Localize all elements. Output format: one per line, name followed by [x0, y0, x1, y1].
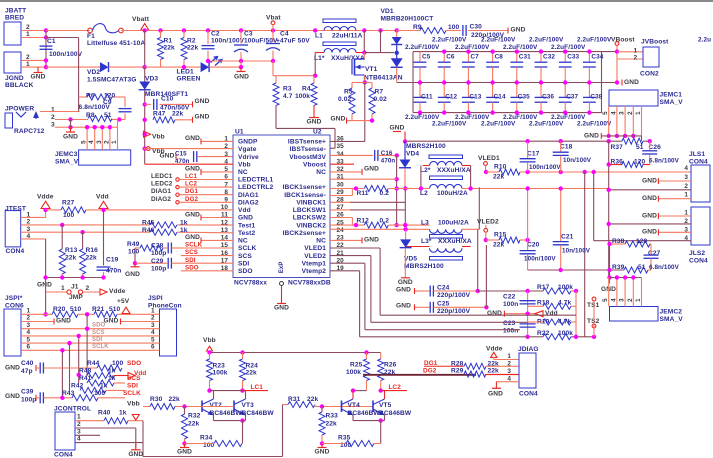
svg-text:1k: 1k	[108, 375, 116, 382]
svg-text:0.02: 0.02	[338, 96, 351, 103]
svg-text:1: 1	[51, 106, 55, 113]
svg-text:LEDC2: LEDC2	[151, 181, 173, 188]
svg-text:2.2uF/100V: 2.2uF/100V	[577, 37, 612, 44]
svg-text:VT5: VT5	[379, 402, 392, 409]
svg-text:RAPC712: RAPC712	[14, 128, 45, 135]
svg-text:DG2: DG2	[423, 368, 437, 375]
svg-text:2: 2	[51, 114, 55, 121]
svg-text:GREEN: GREEN	[177, 76, 201, 83]
svg-text:R26: R26	[384, 362, 397, 369]
svg-text:JLS2: JLS2	[689, 250, 705, 257]
svg-text:3: 3	[619, 298, 626, 302]
svg-text:Test1: Test1	[238, 222, 255, 229]
svg-text:SCLK: SCLK	[185, 242, 203, 249]
svg-text:GND: GND	[488, 391, 503, 398]
svg-text:C13: C13	[469, 94, 481, 101]
svg-text:GND: GND	[185, 135, 200, 142]
svg-text:VboostM3V: VboostM3V	[289, 154, 326, 161]
svg-text:SCS: SCS	[185, 249, 198, 256]
svg-text:GND: GND	[307, 119, 322, 126]
svg-text:SDI: SDI	[127, 382, 138, 389]
svg-text:Vdde: Vdde	[109, 288, 126, 295]
svg-text:100: 100	[128, 249, 140, 256]
svg-text:SMA_V: SMA_V	[660, 99, 684, 106]
svg-text:C3: C3	[244, 30, 253, 37]
svg-text:R13: R13	[65, 247, 78, 254]
svg-text:JMP: JMP	[69, 294, 83, 301]
svg-text:C4: C4	[280, 30, 289, 37]
svg-text:SDI: SDI	[238, 260, 249, 267]
svg-text:34: 34	[337, 151, 345, 158]
svg-text:CON4: CON4	[54, 451, 73, 458]
svg-text:C40: C40	[21, 360, 34, 367]
svg-text:100k: 100k	[213, 370, 228, 377]
svg-text:1.5SMC47AT3G: 1.5SMC47AT3G	[87, 76, 136, 83]
svg-text:GND: GND	[5, 393, 20, 400]
svg-text:22k: 22k	[488, 368, 500, 375]
svg-text:470n: 470n	[381, 157, 396, 164]
svg-text:22k: 22k	[187, 45, 199, 52]
svg-text:100: 100	[112, 360, 124, 367]
svg-text:NC: NC	[238, 169, 248, 176]
svg-text:C8: C8	[495, 53, 504, 60]
svg-text:Vgate: Vgate	[238, 146, 257, 153]
svg-text:JEMC2: JEMC2	[660, 309, 683, 316]
svg-text:GND: GND	[396, 286, 411, 293]
svg-text:10n/100V: 10n/100V	[563, 157, 592, 164]
svg-text:BBLACK: BBLACK	[5, 82, 34, 89]
svg-text:IBCK1sense+: IBCK1sense+	[283, 184, 326, 191]
svg-text:Vbb: Vbb	[238, 161, 251, 168]
svg-text:3: 3	[224, 151, 228, 158]
svg-text:SCS: SCS	[92, 330, 105, 336]
svg-text:100uH/2A: 100uH/2A	[438, 219, 469, 226]
svg-text:C37: C37	[566, 94, 578, 101]
svg-text:VBoost: VBoost	[611, 36, 635, 43]
svg-text:100n/100V: 100n/100V	[529, 164, 561, 171]
svg-text:R20: R20	[53, 306, 66, 313]
svg-text:VT2: VT2	[210, 402, 223, 409]
svg-text:2.2u: 2.2u	[698, 37, 711, 44]
svg-text:2: 2	[86, 285, 90, 292]
svg-text:JPOWER: JPOWER	[5, 105, 34, 112]
svg-text:NCV788xx: NCV788xx	[234, 279, 267, 286]
svg-text:GNDP: GNDP	[238, 139, 258, 146]
svg-text:JVBoost: JVBoost	[641, 39, 669, 46]
svg-text:JLS1: JLS1	[689, 151, 705, 158]
svg-text:Vdd: Vdd	[545, 310, 558, 317]
svg-text:SDO: SDO	[92, 323, 106, 329]
svg-text:C25: C25	[437, 301, 450, 308]
svg-text:GND: GND	[177, 449, 192, 456]
svg-text:IBSTsense+: IBSTsense+	[288, 139, 326, 146]
svg-text:220p/100V: 220p/100V	[437, 308, 471, 315]
svg-text:Vbatt: Vbatt	[132, 16, 150, 23]
svg-text:DIAG2: DIAG2	[238, 200, 259, 207]
svg-text:1: 1	[77, 414, 81, 421]
svg-text:1k: 1k	[108, 367, 116, 374]
svg-text:100: 100	[94, 390, 106, 397]
svg-text:SCLK: SCLK	[92, 344, 109, 350]
svg-text:2.2uF/100V: 2.2uF/100V	[455, 44, 490, 51]
svg-text:R3: R3	[283, 86, 292, 93]
svg-text:2.2uF/100V: 2.2uF/100V	[432, 37, 467, 44]
svg-text:TS1: TS1	[587, 302, 600, 309]
svg-text:GND: GND	[104, 318, 119, 325]
svg-text:C7: C7	[470, 53, 479, 60]
svg-text:100p: 100p	[21, 397, 36, 404]
svg-text:120: 120	[636, 238, 648, 245]
svg-text:SCS: SCS	[238, 253, 252, 260]
svg-text:VT4: VT4	[348, 402, 361, 409]
svg-text:100k: 100k	[295, 93, 310, 100]
svg-text:L1: L1	[315, 32, 323, 39]
svg-text:4: 4	[610, 298, 617, 302]
svg-text:SDO: SDO	[238, 268, 253, 275]
svg-text:22k: 22k	[169, 396, 181, 403]
svg-text:Vtemp2: Vtemp2	[302, 268, 327, 275]
svg-text:L3: L3	[421, 219, 429, 226]
svg-text:R2: R2	[187, 37, 196, 44]
svg-text:C26: C26	[649, 144, 662, 151]
svg-text:GND: GND	[487, 310, 502, 317]
svg-text:VLED1: VLED1	[478, 155, 500, 162]
svg-text:1: 1	[635, 298, 642, 302]
svg-text:5: 5	[27, 336, 31, 343]
svg-text:100uH/2A: 100uH/2A	[437, 190, 468, 197]
svg-text:R9: R9	[413, 24, 422, 31]
svg-text:IBCK2sense+: IBCK2sense+	[283, 230, 326, 237]
svg-text:GND: GND	[125, 271, 140, 278]
svg-text:MBRS2H100: MBRS2H100	[404, 263, 444, 270]
svg-text:2: 2	[151, 315, 155, 322]
svg-text:22k: 22k	[246, 370, 258, 377]
svg-text:1k: 1k	[180, 219, 188, 226]
svg-text:GND: GND	[195, 98, 210, 105]
svg-text:C33: C33	[567, 53, 579, 60]
svg-text:51: 51	[104, 112, 112, 119]
svg-text:6.8n/100V: 6.8n/100V	[649, 264, 680, 271]
svg-text:Vbb: Vbb	[203, 337, 216, 344]
svg-text:DG1: DG1	[185, 188, 198, 195]
svg-text:100: 100	[63, 212, 75, 219]
svg-text:2.2uF/100V: 2.2uF/100V	[551, 44, 586, 51]
svg-text:JDIAG: JDIAG	[518, 346, 539, 353]
svg-text:C24: C24	[437, 285, 450, 292]
svg-text:2.2uF/100V: 2.2uF/100V	[529, 121, 564, 128]
svg-text:C30: C30	[470, 23, 483, 30]
svg-text:SDO: SDO	[127, 360, 141, 367]
svg-text:BC846BW: BC846BW	[242, 410, 275, 417]
svg-text:22k: 22k	[493, 174, 505, 181]
svg-text:C9: C9	[103, 99, 112, 106]
svg-text:NC: NC	[316, 238, 326, 245]
svg-text:LEDC1: LEDC1	[151, 173, 173, 180]
svg-text:100p: 100p	[151, 250, 166, 257]
svg-text:3: 3	[27, 322, 31, 329]
svg-text:R30: R30	[150, 396, 163, 403]
svg-text:0.2: 0.2	[380, 217, 390, 224]
svg-text:IBCK1sense-: IBCK1sense-	[284, 192, 326, 199]
svg-text:R40: R40	[98, 410, 111, 417]
svg-text:J1: J1	[71, 284, 79, 291]
svg-text:4: 4	[610, 111, 617, 115]
svg-text:2: 2	[103, 140, 110, 144]
svg-text:GND: GND	[63, 134, 78, 141]
svg-text:GND: GND	[584, 132, 599, 139]
svg-text:Vdde: Vdde	[486, 346, 503, 353]
svg-text:NC: NC	[238, 238, 248, 245]
svg-text:C28: C28	[151, 243, 164, 250]
svg-text:R6: R6	[86, 92, 95, 99]
svg-text:SCLK: SCLK	[238, 245, 256, 252]
svg-text:4: 4	[151, 329, 155, 336]
svg-text:22k: 22k	[326, 421, 338, 428]
svg-text:SCLK: SCLK	[123, 390, 141, 397]
svg-text:C17: C17	[527, 151, 540, 158]
svg-text:1: 1	[634, 48, 638, 55]
svg-text:22k: 22k	[188, 421, 200, 428]
svg-text:XXXuH/XA: XXXuH/XA	[438, 238, 472, 245]
svg-text:C32: C32	[543, 53, 555, 60]
svg-text:R5: R5	[344, 88, 353, 95]
svg-text:+5V: +5V	[117, 298, 130, 305]
svg-text:LC1: LC1	[251, 384, 264, 391]
svg-text:C35: C35	[518, 94, 530, 101]
svg-text:GND: GND	[234, 73, 249, 80]
svg-text:DIAG2: DIAG2	[151, 196, 171, 203]
svg-text:22k: 22k	[172, 111, 184, 118]
svg-text:100n: 100n	[503, 301, 518, 308]
svg-text:DG2: DG2	[185, 196, 198, 203]
svg-text:VLED2: VLED2	[304, 253, 326, 260]
svg-text:R25: R25	[350, 362, 363, 369]
svg-text:CON6: CON6	[5, 303, 24, 310]
svg-text:100k: 100k	[346, 369, 361, 376]
svg-text:C23: C23	[503, 320, 516, 327]
svg-text:5: 5	[602, 111, 609, 115]
svg-text:Vbb: Vbb	[152, 134, 165, 141]
svg-text:GND: GND	[642, 195, 657, 202]
svg-text:1: 1	[27, 308, 31, 315]
svg-text:5: 5	[151, 336, 155, 343]
svg-text:GND: GND	[364, 237, 379, 244]
svg-text:R29: R29	[451, 368, 464, 375]
svg-text:100n/100V: 100n/100V	[49, 51, 83, 58]
svg-text:Vtemp1: Vtemp1	[302, 260, 327, 267]
svg-text:2.2uF/100V: 2.2uF/100V	[432, 121, 467, 128]
svg-text:R32: R32	[188, 413, 201, 420]
svg-text:100: 100	[448, 24, 460, 31]
svg-text:R1: R1	[164, 37, 173, 44]
svg-text:C6: C6	[446, 53, 455, 60]
svg-text:4: 4	[77, 436, 81, 443]
svg-text:GND: GND	[642, 212, 657, 219]
svg-text:C29: C29	[151, 258, 164, 265]
svg-text:C39: C39	[21, 389, 34, 396]
svg-text:SDI: SDI	[185, 257, 196, 264]
svg-text:5: 5	[602, 298, 609, 302]
svg-text:DIAG1: DIAG1	[151, 188, 171, 195]
svg-text:510: 510	[70, 306, 82, 313]
svg-text:CON4: CON4	[519, 391, 538, 398]
svg-text:GND: GND	[315, 449, 330, 456]
svg-text:R24: R24	[246, 362, 259, 369]
svg-text:CON2: CON2	[640, 71, 659, 78]
svg-text:NC: NC	[316, 169, 326, 176]
svg-text:VINBCK2: VINBCK2	[296, 222, 326, 229]
svg-text:100p: 100p	[151, 265, 166, 272]
svg-text:BRED: BRED	[5, 15, 24, 22]
svg-text:GND: GND	[56, 318, 71, 325]
svg-text:F1: F1	[87, 33, 95, 40]
svg-text:BC846BW: BC846BW	[348, 410, 381, 417]
svg-text:VT1: VT1	[365, 66, 378, 73]
svg-text:4: 4	[684, 165, 688, 172]
svg-text:22k: 22k	[65, 255, 77, 262]
svg-text:CON4: CON4	[689, 257, 708, 264]
svg-text:GND: GND	[274, 305, 289, 312]
svg-text:2: 2	[627, 111, 634, 115]
svg-text:JTEST: JTEST	[5, 206, 26, 213]
svg-text:ExP: ExP	[279, 262, 285, 274]
svg-text:R21: R21	[92, 306, 105, 313]
svg-text:1: 1	[151, 308, 155, 315]
svg-text:L2: L2	[420, 190, 428, 197]
svg-text:1: 1	[111, 140, 118, 144]
svg-text:2.2uF/100V: 2.2uF/100V	[503, 44, 538, 51]
svg-text:Vdde: Vdde	[37, 194, 54, 201]
svg-text:C36: C36	[542, 94, 554, 101]
svg-text:R23: R23	[213, 362, 226, 369]
svg-text:29: 29	[337, 189, 345, 196]
svg-text:24: 24	[337, 227, 345, 234]
svg-text:R49: R49	[127, 241, 140, 248]
svg-text:35: 35	[337, 143, 345, 150]
svg-text:GND: GND	[398, 279, 413, 286]
svg-text:C2: C2	[211, 30, 220, 37]
svg-text:GND: GND	[642, 229, 657, 236]
svg-text:1k: 1k	[180, 227, 188, 234]
svg-text:Littelfuse 451-10A: Littelfuse 451-10A	[87, 40, 145, 47]
svg-text:GND: GND	[511, 26, 526, 33]
svg-text:JEMC3: JEMC3	[55, 151, 78, 158]
svg-text:6.8n/100V: 6.8n/100V	[649, 157, 680, 164]
svg-text:4.7: 4.7	[283, 93, 293, 100]
svg-text:3: 3	[77, 429, 81, 436]
svg-text:C18: C18	[560, 144, 573, 151]
svg-text:IBSTsense-: IBSTsense-	[290, 146, 326, 153]
svg-text:LEDCTRL1: LEDCTRL1	[238, 177, 273, 184]
svg-text:3: 3	[151, 322, 155, 329]
svg-text:1k: 1k	[100, 382, 108, 389]
svg-text:BC846BW: BC846BW	[379, 410, 412, 417]
svg-text:100n/100V: 100n/100V	[211, 38, 245, 45]
svg-text:51: 51	[638, 264, 646, 271]
svg-text:C1: C1	[47, 38, 56, 45]
svg-text:GND: GND	[331, 116, 346, 123]
svg-text:C15: C15	[175, 151, 187, 158]
svg-text:120: 120	[634, 158, 646, 165]
svg-text:C19: C19	[106, 257, 119, 264]
svg-text:R39: R39	[612, 264, 625, 271]
svg-text:GND: GND	[31, 74, 46, 81]
svg-text:47p: 47p	[21, 368, 33, 375]
svg-text:100n/100V: 100n/100V	[524, 255, 556, 262]
svg-text:GND: GND	[185, 211, 200, 218]
svg-text:22k: 22k	[86, 255, 98, 262]
svg-text:GND: GND	[364, 166, 379, 173]
svg-text:R33: R33	[326, 413, 339, 420]
svg-text:U2: U2	[313, 129, 322, 136]
svg-text:C22: C22	[503, 294, 516, 301]
svg-text:2: 2	[77, 421, 81, 428]
svg-text:JGND: JGND	[5, 75, 24, 82]
svg-text:R12: R12	[357, 217, 370, 224]
svg-text:2: 2	[634, 55, 638, 62]
svg-text:Vdd: Vdd	[238, 207, 251, 214]
svg-text:R35: R35	[338, 435, 351, 442]
svg-text:470n: 470n	[106, 268, 121, 275]
svg-text:JSPI*: JSPI*	[5, 295, 23, 302]
svg-text:GND: GND	[160, 152, 175, 159]
svg-text:C11: C11	[421, 94, 433, 101]
svg-text:1: 1	[61, 285, 65, 292]
svg-text:LC2: LC2	[389, 384, 402, 391]
svg-text:NCV788xxDB: NCV788xxDB	[288, 279, 331, 286]
svg-text:510: 510	[109, 306, 121, 313]
svg-text:XXXuH/XA: XXXuH/XA	[437, 167, 471, 174]
svg-text:VLED2: VLED2	[477, 218, 499, 225]
svg-text:LED1: LED1	[177, 68, 194, 75]
svg-text:3: 3	[619, 111, 626, 115]
svg-text:JBATT: JBATT	[5, 8, 26, 15]
svg-text:2.2uF/100V: 2.2uF/100V	[577, 121, 612, 128]
svg-text:GND: GND	[195, 114, 210, 121]
svg-text:C10: C10	[161, 95, 174, 102]
svg-text:2: 2	[627, 298, 634, 302]
svg-text:5: 5	[81, 140, 88, 144]
svg-text:SDO: SDO	[185, 264, 199, 271]
svg-text:C27: C27	[648, 250, 661, 257]
svg-text:R37: R37	[611, 144, 624, 151]
svg-text:CON4: CON4	[6, 248, 25, 255]
svg-text:R38: R38	[612, 238, 625, 245]
svg-text:BC846BW: BC846BW	[210, 410, 243, 417]
svg-text:LEDCTRL2: LEDCTRL2	[238, 184, 273, 191]
svg-text:VD4: VD4	[406, 151, 419, 158]
svg-text:GND: GND	[396, 303, 411, 310]
svg-text:1k: 1k	[119, 410, 127, 417]
svg-text:22uH/11A: 22uH/11A	[332, 32, 363, 39]
svg-text:C34: C34	[591, 53, 603, 60]
svg-text:VD2: VD2	[87, 69, 100, 76]
svg-text:3: 3	[51, 121, 55, 128]
svg-text:XXuH/XXA: XXuH/XXA	[331, 55, 365, 62]
svg-text:R27: R27	[62, 200, 75, 207]
svg-text:R4: R4	[302, 86, 311, 93]
svg-text:C21: C21	[561, 233, 574, 240]
svg-text:LC1: LC1	[185, 173, 197, 180]
svg-text:R47: R47	[153, 111, 166, 118]
svg-text:4: 4	[88, 140, 95, 144]
svg-text:U1: U1	[235, 129, 244, 136]
svg-text:MBRS2H100: MBRS2H100	[406, 143, 446, 150]
svg-text:R45: R45	[142, 219, 155, 226]
svg-text:+47uF 50V: +47uF 50V	[276, 38, 310, 45]
svg-text:C38: C38	[590, 94, 602, 101]
svg-text:LC2: LC2	[185, 181, 197, 188]
